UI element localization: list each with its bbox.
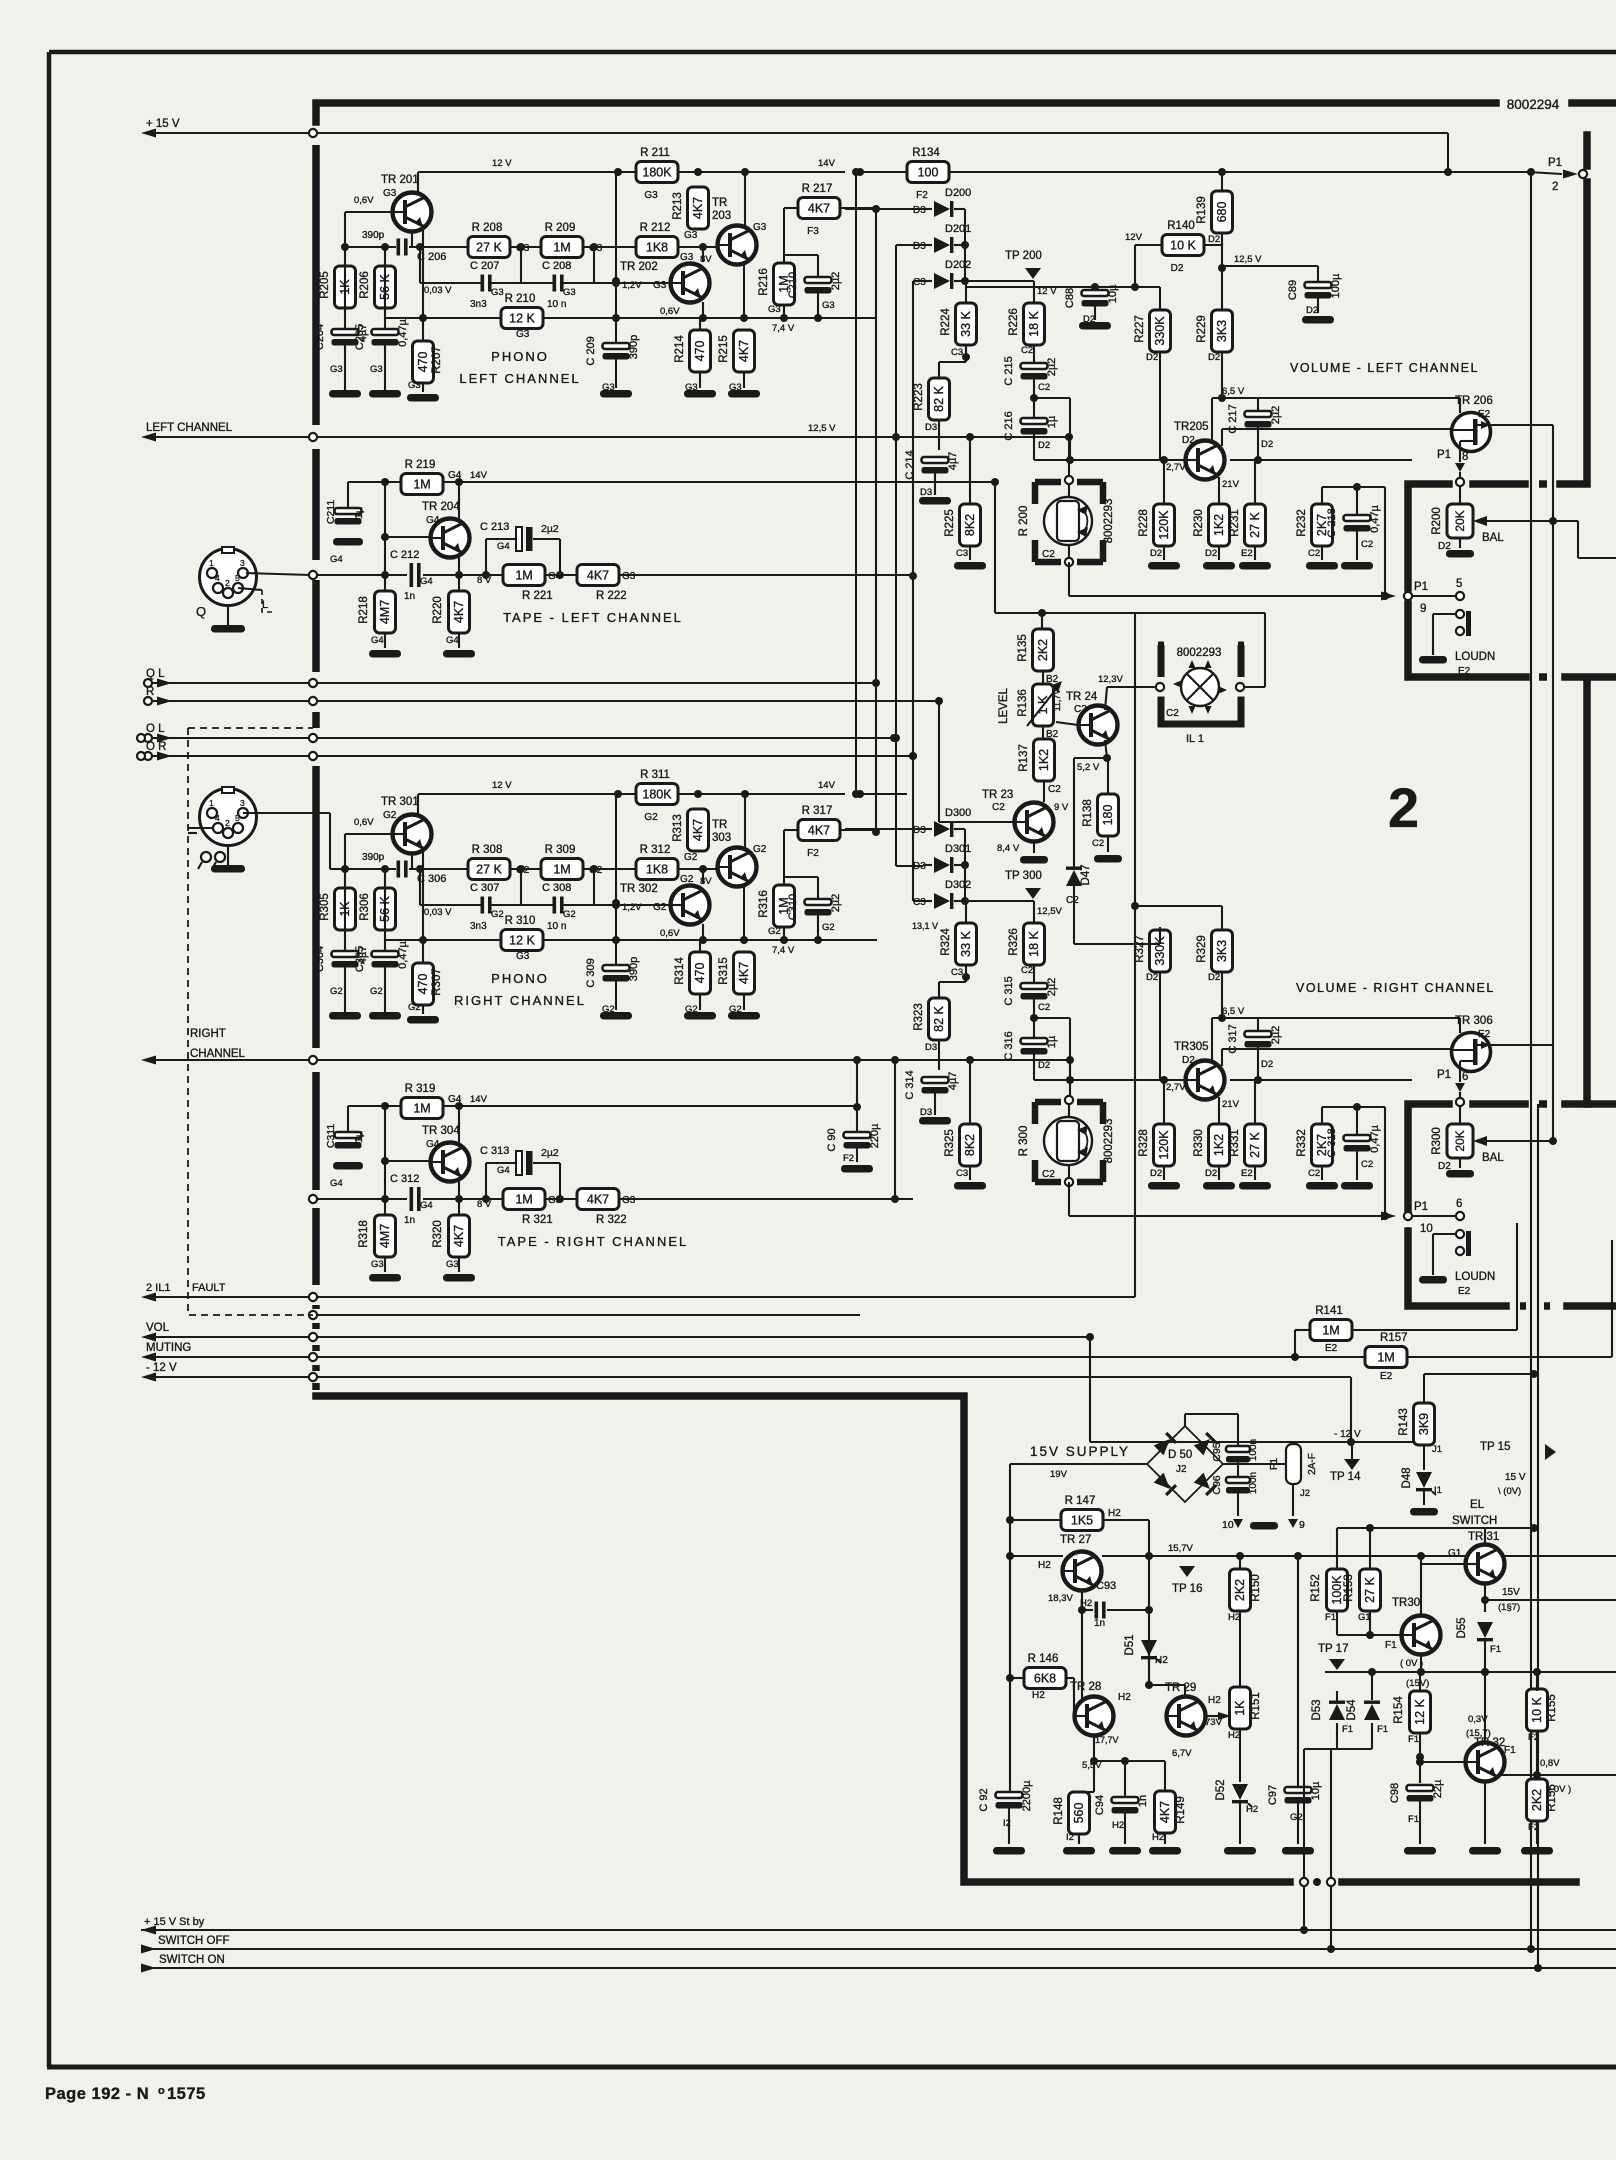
svg-text:100µ: 100µ [1330, 273, 1342, 298]
svg-text:G4: G4 [426, 1139, 440, 1150]
svg-text:G3: G3 [516, 329, 530, 340]
svg-text:2µ2: 2µ2 [830, 272, 842, 291]
svg-text:C2: C2 [1038, 1002, 1050, 1013]
svg-text:G3: G3 [330, 364, 343, 375]
svg-text:33 K: 33 K [959, 930, 973, 956]
svg-text:TAPE - RIGHT CHANNEL: TAPE - RIGHT CHANNEL [498, 1234, 688, 1249]
svg-text:15V SUPPLY: 15V SUPPLY [1030, 1444, 1130, 1459]
svg-text:R216: R216 [758, 268, 770, 296]
svg-text:R230: R230 [1193, 509, 1205, 537]
svg-text:TR 201: TR 201 [381, 174, 419, 186]
svg-text:100n: 100n [1248, 1439, 1259, 1461]
svg-text:R 312: R 312 [640, 844, 671, 856]
svg-text:R 308: R 308 [472, 844, 503, 856]
svg-text:1µ: 1µ [1046, 415, 1058, 428]
svg-text:G2: G2 [653, 902, 667, 913]
svg-text:3K3: 3K3 [1215, 940, 1229, 962]
svg-text:D2: D2 [1208, 352, 1220, 363]
svg-text:10 K: 10 K [1530, 1696, 1544, 1722]
svg-text:RIGHT: RIGHT [190, 1028, 226, 1040]
svg-text:4: 4 [215, 573, 220, 583]
svg-text:203: 203 [712, 210, 731, 222]
svg-text:1M: 1M [553, 863, 570, 877]
svg-text:D3: D3 [920, 487, 932, 498]
svg-text:G2: G2 [684, 852, 698, 863]
svg-text:PHONO: PHONO [491, 971, 549, 986]
svg-text:R 321: R 321 [522, 1214, 553, 1226]
svg-text:8: 8 [1462, 451, 1468, 463]
svg-text:12,5 V: 12,5 V [808, 423, 836, 434]
svg-text:12V: 12V [1125, 232, 1143, 243]
svg-text:TR 301: TR 301 [381, 796, 419, 808]
svg-text:R 147: R 147 [1065, 1495, 1096, 1507]
svg-text:0,03 V: 0,03 V [424, 907, 452, 918]
svg-text:F1: F1 [1385, 1640, 1397, 1651]
svg-text:8 V: 8 V [477, 1199, 492, 1210]
svg-text:R149: R149 [1175, 1796, 1187, 1824]
svg-text:- 12 V: - 12 V [1334, 1429, 1361, 1440]
svg-text:82 K: 82 K [932, 1005, 946, 1031]
svg-text:0,03 V: 0,03 V [424, 285, 452, 296]
svg-text:G4: G4 [497, 541, 510, 552]
svg-text:C2: C2 [1361, 539, 1373, 550]
svg-text:D2: D2 [1205, 548, 1217, 559]
svg-text:R324: R324 [940, 928, 952, 956]
svg-text:15,7V: 15,7V [1168, 1543, 1193, 1554]
svg-text:8002293: 8002293 [1103, 1119, 1115, 1164]
svg-text:4K7: 4K7 [691, 819, 705, 841]
svg-text:H2: H2 [1112, 1820, 1124, 1831]
svg-text:R206: R206 [359, 271, 371, 299]
svg-text:C311: C311 [325, 1124, 337, 1148]
svg-text:G4: G4 [330, 1178, 343, 1189]
svg-text:C304: C304 [314, 946, 326, 972]
svg-text:4K7: 4K7 [587, 1193, 609, 1207]
svg-text:R151: R151 [1250, 1692, 1262, 1720]
svg-text:G1: G1 [1448, 1548, 1462, 1559]
svg-text:R 310: R 310 [505, 915, 536, 927]
svg-text:TR 306: TR 306 [1455, 1015, 1493, 1027]
svg-text:E2: E2 [1458, 1286, 1471, 1297]
svg-text:D52: D52 [1215, 1779, 1227, 1800]
svg-text:D2: D2 [1261, 1059, 1273, 1070]
svg-text:TP 15: TP 15 [1480, 1441, 1510, 1453]
svg-text:R143: R143 [1398, 1408, 1410, 1436]
svg-text:6,7V: 6,7V [1172, 1748, 1192, 1759]
svg-text:SWITCH: SWITCH [1452, 1515, 1497, 1527]
svg-text:12,5 V: 12,5 V [1234, 254, 1262, 265]
svg-text:R200: R200 [1431, 507, 1443, 535]
svg-text:G2: G2 [768, 926, 781, 937]
svg-text:1K2: 1K2 [1212, 514, 1226, 536]
svg-text:IL 1: IL 1 [1186, 733, 1204, 745]
svg-text:C205: C205 [354, 324, 366, 350]
svg-text:C 307: C 307 [470, 882, 499, 894]
svg-text:G3: G3 [822, 300, 835, 311]
svg-text:D2: D2 [1261, 439, 1273, 450]
svg-text:D2: D2 [1038, 1060, 1050, 1071]
svg-text:27 K: 27 K [1248, 511, 1262, 537]
svg-text:LEVEL: LEVEL [998, 687, 1010, 723]
svg-text:C2: C2 [1308, 1168, 1320, 1179]
svg-text:1n: 1n [404, 1215, 415, 1226]
svg-text:1M: 1M [515, 1193, 532, 1207]
svg-text:3: 3 [240, 558, 245, 568]
svg-text:C97: C97 [1267, 1785, 1279, 1805]
svg-text:C305: C305 [354, 946, 366, 972]
svg-text:C88: C88 [1064, 288, 1076, 308]
svg-text:P1: P1 [1437, 1069, 1451, 1081]
svg-text:5,2 V: 5,2 V [1077, 762, 1100, 773]
svg-text:2µ2: 2µ2 [1270, 1026, 1282, 1045]
svg-text:TR 302: TR 302 [620, 883, 658, 895]
svg-text:390p: 390p [628, 957, 640, 981]
svg-text:Q L: Q L [146, 668, 165, 680]
svg-text:G3: G3 [768, 304, 781, 315]
svg-text:R332: R332 [1296, 1129, 1308, 1157]
svg-text:G2: G2 [680, 874, 694, 885]
svg-text:1µ: 1µ [353, 507, 365, 519]
svg-text:2A-F: 2A-F [1307, 1453, 1318, 1475]
svg-text:TR 31: TR 31 [1468, 1531, 1499, 1543]
svg-text:R134: R134 [912, 147, 940, 159]
svg-text:H2: H2 [1155, 1655, 1168, 1666]
svg-text:12 V: 12 V [492, 158, 512, 169]
svg-text:PHONO: PHONO [491, 349, 549, 364]
svg-text:C2: C2 [1042, 1169, 1055, 1180]
svg-text:0,47µ: 0,47µ [397, 940, 409, 968]
svg-text:C2: C2 [1021, 345, 1033, 356]
svg-text:4K7: 4K7 [452, 1225, 466, 1247]
svg-text:C 312: C 312 [390, 1173, 419, 1185]
svg-text:C2: C2 [1038, 382, 1050, 393]
svg-text:8002294: 8002294 [1507, 97, 1560, 112]
svg-text:EL: EL [1470, 1499, 1485, 1511]
svg-text:2µ2: 2µ2 [1046, 358, 1058, 377]
svg-text:F2: F2 [807, 848, 819, 859]
svg-text:L: L [262, 599, 268, 611]
svg-text:BAL: BAL [1482, 532, 1504, 544]
svg-text:R229: R229 [1196, 315, 1208, 343]
svg-text:R325: R325 [944, 1129, 956, 1157]
svg-text:12 V: 12 V [492, 780, 512, 791]
svg-text:R220: R220 [432, 596, 444, 624]
svg-text:C211: C211 [325, 500, 337, 524]
svg-text:8002293: 8002293 [1103, 499, 1115, 544]
svg-text:(15,7): (15,7) [1466, 1728, 1491, 1739]
svg-text:470: 470 [693, 963, 707, 984]
svg-text:R 322: R 322 [596, 1214, 627, 1226]
svg-text:C 318: C 318 [1326, 1128, 1338, 1157]
svg-text:C2: C2 [1166, 708, 1179, 719]
svg-text:2,7V: 2,7V [1166, 1082, 1186, 1093]
svg-text:D3: D3 [925, 422, 937, 433]
svg-text:\ (0V): \ (0V) [1498, 1486, 1521, 1497]
svg-text:R228: R228 [1138, 509, 1150, 537]
svg-text:1K: 1K [1233, 1700, 1247, 1716]
svg-text:D3: D3 [925, 1042, 937, 1053]
svg-text:G3: G3 [622, 571, 636, 582]
svg-text:G3: G3 [516, 951, 530, 962]
svg-text:R135: R135 [1017, 634, 1029, 662]
svg-text:8002293: 8002293 [1177, 647, 1222, 659]
svg-text:2: 2 [1388, 776, 1419, 839]
svg-text:R214: R214 [674, 335, 686, 363]
svg-text:1K2: 1K2 [1037, 749, 1051, 771]
svg-text:390p: 390p [362, 852, 385, 863]
svg-text:4K7: 4K7 [1158, 1801, 1172, 1823]
svg-text:C2: C2 [1074, 704, 1087, 715]
svg-text:G2: G2 [408, 1002, 421, 1013]
svg-text:470: 470 [416, 352, 430, 373]
svg-text:R313: R313 [672, 814, 684, 842]
svg-text:H2: H2 [1118, 1692, 1131, 1703]
svg-text:D 50: D 50 [1168, 1449, 1192, 1461]
svg-text:R223: R223 [913, 383, 925, 411]
svg-text:D200: D200 [945, 187, 971, 199]
svg-text:TR 206: TR 206 [1455, 395, 1493, 407]
svg-text:C210: C210 [787, 272, 799, 298]
svg-text:G2: G2 [370, 986, 383, 997]
svg-text:R213: R213 [672, 192, 684, 220]
svg-text:8K2: 8K2 [963, 514, 977, 536]
svg-text:R152: R152 [1310, 1574, 1322, 1602]
svg-text:18 K: 18 K [1027, 930, 1041, 956]
svg-text:E2: E2 [1325, 1343, 1338, 1354]
svg-text:33 K: 33 K [959, 310, 973, 336]
svg-text:20K: 20K [1453, 1130, 1467, 1151]
svg-text:1,2V: 1,2V [622, 902, 642, 913]
svg-text:R307: R307 [431, 968, 443, 996]
svg-text:+ 15 V: + 15 V [146, 118, 180, 130]
svg-text:TR 202: TR 202 [620, 261, 658, 273]
svg-text:1K5: 1K5 [1071, 1514, 1093, 1528]
svg-text:R140: R140 [1167, 220, 1195, 232]
svg-text:1M: 1M [553, 241, 570, 255]
svg-text:G2: G2 [491, 909, 504, 920]
svg-text:D54: D54 [1346, 1699, 1358, 1721]
svg-text:R315: R315 [718, 957, 730, 985]
svg-text:100n: 100n [1248, 1472, 1259, 1494]
svg-text:G3: G3 [446, 1259, 459, 1270]
svg-text:P1: P1 [1414, 1201, 1428, 1213]
svg-text:10: 10 [1222, 1519, 1234, 1531]
svg-text:22µ: 22µ [1432, 1779, 1444, 1798]
svg-text:2: 2 [225, 578, 230, 588]
svg-text:R323: R323 [913, 1003, 925, 1031]
svg-text:TR: TR [712, 197, 727, 209]
svg-text:G4: G4 [426, 515, 440, 526]
svg-text:D47: D47 [1080, 864, 1092, 885]
svg-text:R 210: R 210 [505, 293, 536, 305]
svg-text:C 212: C 212 [390, 549, 419, 561]
svg-text:D2: D2 [1208, 234, 1220, 245]
svg-text:G2: G2 [563, 909, 576, 920]
svg-text:R156: R156 [1546, 1784, 1558, 1812]
svg-text:TR 304: TR 304 [422, 1125, 460, 1137]
svg-text:2µ2: 2µ2 [541, 1147, 559, 1159]
svg-text:D2: D2 [1150, 1168, 1162, 1179]
svg-text:15 V: 15 V [1505, 1472, 1526, 1483]
svg-text:10 n: 10 n [547, 299, 566, 310]
svg-text:R320: R320 [432, 1220, 444, 1248]
svg-text:G4: G4 [330, 554, 343, 565]
svg-text:6: 6 [1456, 1198, 1462, 1210]
svg-text:R 217: R 217 [802, 183, 833, 195]
svg-text:21V: 21V [1222, 479, 1240, 490]
svg-text:C2: C2 [1042, 549, 1055, 560]
svg-text:R 311: R 311 [640, 769, 670, 781]
svg-text:F3: F3 [807, 226, 819, 237]
svg-text:F1: F1 [1377, 1724, 1388, 1735]
svg-text:D302: D302 [945, 879, 971, 891]
svg-text:2,7V: 2,7V [1166, 462, 1186, 473]
svg-text:E2: E2 [1241, 1168, 1253, 1179]
svg-text:R331: R331 [1229, 1129, 1241, 1157]
svg-text:MUTING: MUTING [146, 1342, 191, 1354]
svg-text:0,47µ: 0,47µ [1369, 1124, 1381, 1152]
svg-text:3K3: 3K3 [1215, 320, 1229, 342]
svg-text:6,5 V: 6,5 V [1222, 1006, 1245, 1017]
svg-text:8V: 8V [700, 254, 712, 265]
svg-text:14V: 14V [818, 780, 836, 791]
svg-text:D51: D51 [1124, 1634, 1136, 1655]
svg-text:D300: D300 [945, 807, 971, 819]
svg-text:330K: 330K [1153, 316, 1167, 346]
svg-text:6,5 V: 6,5 V [1222, 386, 1245, 397]
svg-text:TP 16: TP 16 [1172, 1583, 1202, 1595]
svg-text:- 12 V: - 12 V [146, 1362, 177, 1374]
svg-text:C 314: C 314 [904, 1070, 916, 1099]
svg-text:19V: 19V [1050, 1469, 1068, 1480]
svg-text:D3: D3 [920, 1107, 932, 1118]
svg-text:G2: G2 [1290, 1812, 1303, 1823]
svg-text:D3: D3 [913, 241, 926, 252]
svg-text:1K8: 1K8 [646, 863, 668, 877]
svg-text:C2: C2 [992, 802, 1005, 813]
svg-text:R207: R207 [431, 346, 443, 374]
svg-text:6: 6 [1462, 1071, 1468, 1083]
svg-text:C3: C3 [956, 548, 968, 559]
svg-text:H2: H2 [1080, 1598, 1092, 1609]
svg-text:R 200: R 200 [1018, 506, 1030, 537]
svg-text:D2: D2 [1182, 435, 1195, 446]
svg-text:TR 23: TR 23 [982, 789, 1013, 801]
svg-text:C 313: C 313 [480, 1145, 509, 1157]
svg-text:TP 14: TP 14 [1330, 1471, 1361, 1483]
svg-text:R305: R305 [319, 893, 331, 921]
svg-text:C94: C94 [1094, 1795, 1106, 1815]
svg-text:D55: D55 [1456, 1617, 1468, 1638]
svg-text:C96: C96 [1211, 1475, 1223, 1494]
svg-text:R 317: R 317 [802, 805, 833, 817]
svg-text:27 K: 27 K [1363, 1576, 1377, 1602]
svg-text:( 0V ): ( 0V ) [1400, 1658, 1423, 1669]
svg-text:2K2: 2K2 [1530, 1789, 1544, 1811]
svg-text:1n: 1n [1094, 1618, 1105, 1629]
svg-text:F1: F1 [1342, 1724, 1353, 1735]
svg-text:18 K: 18 K [1027, 310, 1041, 336]
svg-text:C 207: C 207 [470, 260, 499, 272]
svg-text:E2: E2 [1478, 1029, 1491, 1040]
svg-text:6K8: 6K8 [1034, 1672, 1056, 1686]
svg-text:G2: G2 [753, 844, 767, 855]
svg-text:2200µ: 2200µ [1021, 1780, 1033, 1811]
svg-text:FAULT: FAULT [192, 1282, 226, 1294]
svg-text:C93: C93 [1096, 1580, 1116, 1592]
svg-text:G1: G1 [1358, 1612, 1371, 1623]
svg-text:R326: R326 [1008, 928, 1020, 956]
svg-text:0,6V: 0,6V [354, 817, 374, 828]
svg-text:R138: R138 [1082, 799, 1094, 827]
svg-text:390p: 390p [628, 335, 640, 359]
svg-text:1: 1 [209, 798, 214, 808]
svg-text:G3: G3 [684, 230, 698, 241]
svg-text:(1§7): (1§7) [1498, 1602, 1520, 1613]
svg-text:4K7: 4K7 [452, 601, 466, 623]
svg-text:H2: H2 [1032, 1690, 1045, 1701]
svg-text:R 309: R 309 [545, 844, 576, 856]
svg-text:D3: D3 [913, 825, 926, 836]
svg-text:R 222: R 222 [596, 590, 627, 602]
svg-text:82 K: 82 K [932, 385, 946, 411]
svg-text:560: 560 [1072, 1803, 1086, 1824]
svg-text:G3: G3 [622, 1195, 636, 1206]
svg-text:R205: R205 [319, 271, 331, 299]
svg-text:390p: 390p [362, 230, 385, 241]
svg-text:D2: D2 [1182, 1055, 1195, 1066]
svg-text:0,6V: 0,6V [660, 306, 680, 317]
svg-text:G4: G4 [446, 635, 459, 646]
svg-text:R150: R150 [1250, 1574, 1262, 1602]
svg-text:Page 192 - N: Page 192 - N [45, 2085, 149, 2103]
svg-text:D301: D301 [945, 843, 971, 855]
svg-text:9 V: 9 V [1054, 802, 1069, 813]
svg-text:0,47µ: 0,47µ [397, 318, 409, 346]
svg-text:4K7: 4K7 [808, 824, 830, 838]
svg-text:R232: R232 [1296, 509, 1308, 537]
svg-text:D3: D3 [913, 205, 926, 216]
svg-text:120K: 120K [1157, 1130, 1171, 1160]
svg-text:R218: R218 [358, 596, 370, 624]
svg-text:R330: R330 [1193, 1129, 1205, 1157]
svg-text:8K2: 8K2 [963, 1134, 977, 1156]
svg-text:C3: C3 [951, 967, 963, 978]
svg-text:8 V: 8 V [477, 575, 492, 586]
svg-text:C 215: C 215 [1003, 356, 1015, 385]
svg-text:C 308: C 308 [542, 882, 571, 894]
svg-text:C 214: C 214 [904, 450, 916, 479]
svg-text:R148: R148 [1053, 1797, 1065, 1825]
svg-text:4K7: 4K7 [587, 569, 609, 583]
svg-text:303: 303 [712, 832, 731, 844]
svg-text:14V: 14V [470, 470, 488, 481]
svg-text:7,4 V: 7,4 V [772, 945, 795, 956]
svg-text:R139: R139 [1196, 196, 1208, 224]
svg-text:11,7V: 11,7V [1052, 689, 1062, 712]
svg-text:0,6V: 0,6V [660, 928, 680, 939]
svg-text:+ 15 V St by: + 15 V St by [144, 1916, 205, 1928]
svg-text:4K7: 4K7 [737, 962, 751, 984]
svg-text:21V: 21V [1222, 1099, 1240, 1110]
svg-text:G3: G3 [370, 364, 383, 375]
svg-text:1M: 1M [1377, 1351, 1394, 1365]
svg-text:R 209: R 209 [545, 222, 576, 234]
svg-text:R: R [146, 686, 154, 698]
svg-text:R 208: R 208 [472, 222, 503, 234]
svg-text:1K8: 1K8 [646, 241, 668, 255]
svg-text:H2: H2 [1152, 1832, 1164, 1843]
